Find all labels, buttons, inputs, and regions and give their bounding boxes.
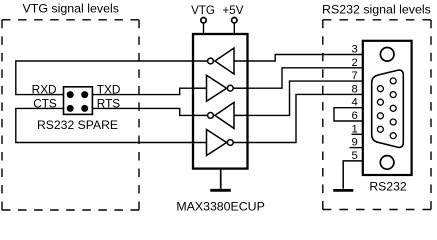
svg-text:RS232: RS232 (369, 179, 406, 193)
wire RXD: header to left bus up to R1 output (16, 61, 193, 95)
svg-text:TXD: TXD (97, 83, 121, 97)
receiver R2 (row 3, points left) (193, 102, 248, 128)
header pin dot 1 (67, 91, 74, 98)
header pin dot 4 (81, 105, 88, 112)
header pin dot 2 (81, 91, 88, 98)
DB9 pin holes left column (6-9) (377, 86, 383, 133)
svg-text:CTS: CTS (33, 96, 57, 110)
DB9 top mounting hole (380, 48, 394, 62)
VTG terminal (201, 18, 206, 23)
wire TXD: header to T1 input (92, 88, 192, 94)
wire pin 1 (352, 133, 363, 135)
wire to pin 7 (248, 81, 363, 115)
svg-text:RXD: RXD (32, 83, 57, 97)
header pin dot 3 (67, 105, 74, 112)
svg-text:6: 6 (352, 110, 358, 122)
wire pin 5 to ground (343, 161, 362, 189)
svg-text:+5V: +5V (223, 4, 244, 17)
svg-text:8: 8 (352, 83, 358, 95)
svg-text:5: 5 (352, 150, 358, 162)
svg-text:RTS: RTS (97, 96, 121, 110)
wire RTS: header to R2 row (92, 108, 192, 115)
wire pins 4-6 loopback (334, 108, 363, 121)
DB9 connector J2 outline (363, 41, 412, 175)
DB9 ground (333, 189, 353, 192)
svg-text:RS232 SPARE: RS232 SPARE (37, 118, 118, 132)
VTG signal levels dashed box (2, 20, 139, 210)
DB9 bottom mounting hole (380, 156, 394, 170)
svg-text:7: 7 (352, 70, 358, 82)
svg-text:4: 4 (352, 97, 358, 109)
svg-text:1: 1 (352, 123, 358, 135)
IC ground (220, 169, 222, 189)
driver T2 (row 4, points right) (193, 130, 248, 156)
wire to pin 8 (248, 94, 363, 142)
svg-text:9: 9 (352, 137, 358, 149)
svg-text:VTG signal levels: VTG signal levels (23, 2, 119, 16)
DB9 pin holes right column (1-5) (390, 78, 396, 139)
wire CTS: header to left bus down to T2 row (16, 108, 193, 142)
RS232 signal levels dashed box (323, 20, 431, 210)
IC U1 box (193, 34, 248, 169)
svg-text:3: 3 (352, 44, 358, 56)
svg-text:MAX3380ECUP: MAX3380ECUP (176, 199, 265, 213)
svg-text:VTG: VTG (191, 4, 215, 17)
wire pin 9 (350, 147, 363, 149)
wire to pin 2 (248, 68, 363, 88)
DB9 D-shell (372, 70, 404, 147)
svg-text:RS232 signal levels: RS232 signal levels (322, 2, 431, 16)
receiver R1 (row 1, points left) (193, 48, 248, 74)
+5V terminal (232, 18, 237, 23)
driver T1 (row 2, points right) (193, 75, 248, 101)
header J1 2x2 box (64, 87, 93, 115)
svg-text:2: 2 (352, 57, 358, 69)
wire to pin 3 (248, 55, 363, 62)
